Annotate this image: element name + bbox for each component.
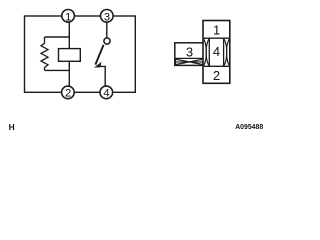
svg-text:3: 3: [186, 44, 193, 59]
svg-text:1: 1: [213, 23, 220, 38]
svg-text:4: 4: [103, 88, 109, 100]
svg-text:H: H: [9, 122, 15, 132]
svg-text:2: 2: [65, 88, 71, 100]
svg-text:4: 4: [213, 44, 220, 59]
svg-text:A095488: A095488: [235, 124, 263, 131]
svg-text:1: 1: [65, 11, 71, 23]
svg-text:3: 3: [104, 11, 110, 23]
svg-text:2: 2: [213, 68, 220, 83]
